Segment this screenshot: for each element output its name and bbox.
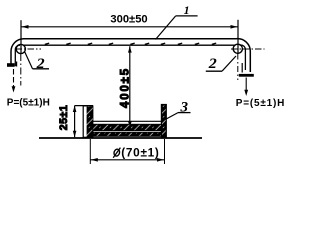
- left force arrow: [12, 69, 16, 93]
- svg-text:2: 2: [208, 56, 217, 72]
- left pin centerline vertical: [20, 54, 22, 86]
- dimension 25±1: [58, 105, 93, 137]
- right pin circle 2: [233, 44, 242, 53]
- label 1: [184, 3, 190, 17]
- trough right wall: [161, 105, 166, 138]
- svg-text:2: 2: [35, 56, 44, 72]
- dimension φ(70±1): [90, 139, 164, 164]
- svg-text:P=(5±1)H: P=(5±1)H: [236, 98, 285, 109]
- left support hook 2: [7, 39, 24, 67]
- trough left wall: [83, 106, 93, 137]
- right pin centerline horizontal: [231, 48, 265, 50]
- label 2 left leader: [25, 52, 49, 69]
- left pin circle 2: [16, 44, 25, 53]
- svg-text:400±5: 400±5: [119, 67, 131, 108]
- label 1 leader: [156, 16, 198, 40]
- dimension 400±5: [119, 46, 131, 127]
- trough bottom plate lower band: [93, 132, 162, 136]
- label 2 right leader: [206, 56, 236, 71]
- svg-text:3: 3: [179, 99, 188, 115]
- label 2 left: [35, 56, 44, 72]
- svg-text:(70±1): (70±1): [121, 145, 159, 159]
- conductor bar 1: [23, 39, 237, 46]
- label 3 leader: [165, 113, 190, 120]
- svg-text:P=(5±1)H: P=(5±1)H: [7, 98, 50, 109]
- trough inner bottom line: [93, 120, 162, 122]
- right force arrow: [244, 78, 248, 97]
- dimension 300±50: [21, 14, 238, 54]
- trough bottom plate upper band: [93, 124, 162, 130]
- svg-text:25±1: 25±1: [58, 105, 70, 131]
- label 2 right: [208, 56, 217, 72]
- svg-text:300±50: 300±50: [110, 14, 147, 26]
- right force label P=(5±1)H: [236, 98, 285, 109]
- left pin centerline horizontal: [16, 48, 42, 50]
- left force label P=(5±1)H: [7, 98, 50, 109]
- svg-text:1: 1: [184, 3, 190, 17]
- trough ground line: [39, 137, 202, 139]
- label 3: [179, 99, 188, 115]
- right support hook 2: [236, 39, 254, 77]
- right pin centerline vertical: [237, 54, 239, 81]
